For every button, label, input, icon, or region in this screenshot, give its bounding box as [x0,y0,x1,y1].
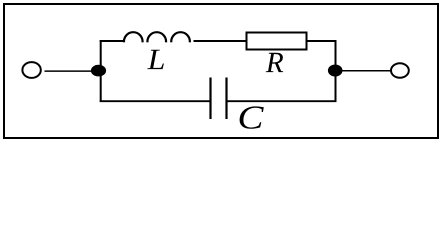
wire: top branch, node A corner to inductor [100,40,125,42]
label L [147,50,164,69]
label R [266,53,284,72]
wire: capacitor to node B corner [228,100,337,102]
wire: resistor to node B corner [307,40,337,42]
node B (right junction dot) [328,65,343,77]
inductor L [124,32,190,42]
terminal T2 (right output) [391,63,409,78]
wire: node B to terminal T2 [336,70,391,72]
label C [240,106,264,128]
wire: right vertical branch (top and bottom branches to node B) [335,40,337,102]
wire: left vertical branch (node A to top and bottom branches) [100,40,102,102]
wire: inductor to resistor [194,40,247,42]
wire: T1 to node A [45,70,99,72]
wire: bottom branch, node A corner to capacitor [100,100,210,102]
capacitor C (left plate) [209,78,211,120]
capacitor C (right plate) [225,78,227,120]
node A (left junction dot) [91,65,106,77]
resistor R [247,33,307,50]
terminal T1 (left input) [22,62,40,78]
